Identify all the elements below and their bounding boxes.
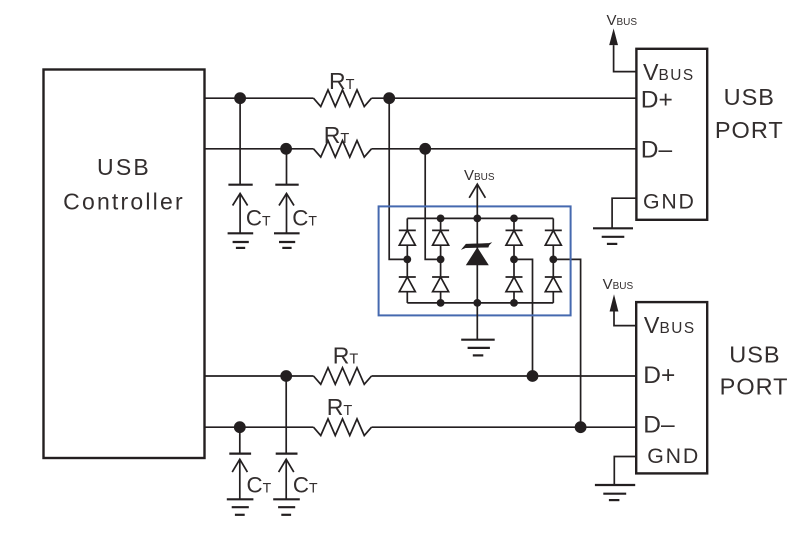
svg-text:Controller: Controller [63,189,185,215]
wire TVS branch C: diode D3 mid node to D+ bottom [514,259,533,376]
label RT4 [327,394,353,420]
node: junction dot D+ top at capacitor CT1 [234,92,246,104]
wire D+ bottom: controller to RT3 [205,375,314,377]
wire TVS branch B: D- top to diode D2 mid node [425,149,440,260]
label USB PORT 1 [715,84,784,143]
ground at USB port 2 [595,457,636,501]
svg-text:D–: D– [643,412,675,439]
TVS top rail [407,217,553,219]
ground at CT3 [227,499,254,515]
node D3 bottom [510,299,518,307]
ground at USB port 1 [593,198,636,244]
resistor RT1 (top D+ series) [314,90,372,107]
label CT3 [247,473,272,498]
node D3 top [510,215,518,223]
node D2 bottom [437,299,445,307]
wire D+ bottom: RT3 to USB port 2 [372,375,637,377]
TVS bottom rail [407,302,553,304]
wire D- top: controller to RT2 [205,148,314,150]
diode pair D1 (steering, left) [399,218,416,303]
VBUS arrow at USB port 2 [610,294,637,325]
label VBUS at USB port 2 [603,276,634,293]
label CT1 [246,206,271,231]
node D1 mid [403,256,411,264]
svg-text:D+: D+ [641,86,673,113]
svg-text:USB: USB [724,84,775,110]
node: junction dot D- top at TVS branch [419,143,431,155]
node: junction dot D+ bottom at capacitor CT4 [280,370,292,382]
node: junction dot D- bottom at TVS branch [575,421,587,433]
ground at CT1 [228,233,254,248]
svg-text:PORT: PORT [720,374,789,400]
label USB PORT 2 [720,342,789,400]
capacitor CT1 (top D+) [228,98,252,233]
label VBUS at USB port 1 [607,12,638,29]
capacitor CT4 (bottom D+) [276,376,298,499]
label CT4 [293,473,318,498]
label CT2 [292,206,317,231]
node: junction dot D- bottom at capacitor CT3 [234,421,246,433]
wire D- bottom: controller to RT4 [205,426,314,428]
node Z1 top [473,215,481,223]
svg-text:USB: USB [97,154,151,180]
label RT3 [333,343,359,369]
USB controller U1 box [44,70,205,459]
zener diode Z1 (center clamp) [461,218,492,303]
ground at TVS array [461,303,495,356]
svg-text:USB: USB [729,342,780,368]
node: junction dot D+ bottom at TVS branch [527,370,539,382]
svg-text:GND: GND [643,190,696,214]
resistor RT3 (bottom D+ series) [314,368,372,385]
TVS array boundary box [379,206,571,315]
label RT2 [324,122,350,148]
node D4 mid [549,256,557,264]
VBUS arrow at TVS array [469,184,485,218]
node D2 mid [437,256,445,264]
wire D- top: RT2 to USB port 1 [372,148,637,150]
wire D+ top: RT1 to USB port 1 [372,97,637,99]
wire D+ top: controller to RT1 [205,97,314,99]
resistor RT4 (bottom D- series) [314,419,372,436]
capacitor CT3 (bottom D-) [229,427,251,499]
resistor RT2 (top D- series) [314,141,372,158]
ground at CT4 [273,499,300,515]
VBUS arrow at USB port 1 [609,28,636,71]
node D2 top [437,215,445,223]
USB port 1 box [636,49,707,220]
wire TVS branch A: D+ top to diode D1 mid node [389,98,407,259]
node: junction dot D- top at capacitor CT2 [280,143,292,155]
svg-text:PORT: PORT [715,117,784,143]
label RT1 [329,68,355,94]
svg-text:GND: GND [647,444,700,468]
wire D- bottom: RT4 to USB port 2 [372,426,637,428]
ground at CT2 [274,233,300,248]
capacitor CT2 (top D-) [275,149,298,234]
node D3 mid [510,256,518,264]
label VBUS at TVS array [464,167,495,184]
svg-text:D–: D– [641,137,673,164]
node: junction dot D+ top at TVS branch [383,92,395,104]
USB port 2 box [636,302,707,473]
wire TVS branch D: diode D4 mid node to D- bottom [553,259,580,427]
node Z1 bottom [473,299,481,307]
svg-text:D+: D+ [643,362,675,389]
diode pair D3 (steering) [506,218,523,303]
diode pair D2 (steering) [432,218,449,303]
diode pair D4 (steering, right) [545,218,562,303]
